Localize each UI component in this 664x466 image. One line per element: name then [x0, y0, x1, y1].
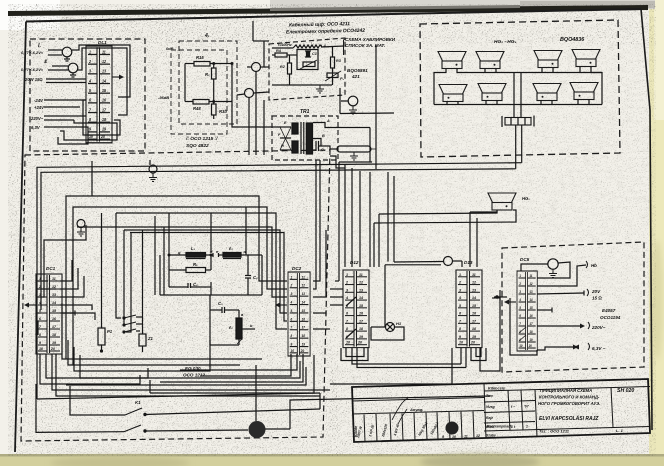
potentiometer P1	[98, 328, 105, 345]
dark page top edge band	[8, 5, 648, 16]
connector D13 body	[456, 270, 482, 348]
speaker HG6	[439, 85, 467, 102]
feeder verticals	[513, 73, 515, 118]
svg-text:R₁: R₁	[193, 262, 198, 267]
svg-text:H1: H1	[396, 321, 402, 326]
lamp wires	[371, 326, 386, 328]
right rows	[484, 401, 535, 403]
bus wires row 2	[434, 104, 602, 106]
tick DC1 pin5	[62, 312, 75, 314]
connector DC1 body	[36, 274, 62, 354]
switch K1 upper	[70, 386, 125, 415]
svg-text:Rachlampinach: Rachlampinach	[487, 424, 512, 428]
svg-text:Tsz. : OCO 1211: Tsz. : OCO 1211	[539, 429, 570, 434]
svg-text:4₁: 4₁	[204, 33, 210, 39]
svg-text:1: 1	[526, 425, 528, 429]
secondary winding	[306, 123, 312, 154]
frame right line	[641, 9, 652, 430]
row sub columns	[508, 390, 510, 430]
LC wires	[169, 254, 186, 256]
svg-text:КОНТРОЛЬНОГО И КОМАНД-: КОНТРОЛЬНОГО И КОМАНД-	[539, 395, 600, 400]
svg-text:HG₂ - HG₉: HG₂ - HG₉	[494, 39, 516, 45]
wires between blocks	[263, 41, 265, 67]
svg-text:R15: R15	[196, 55, 204, 60]
switch marks pins 8 9	[519, 327, 526, 333]
switch K1 lower	[36, 384, 124, 432]
svg-text:C₂: C₂	[253, 275, 258, 280]
wires left of D12	[335, 280, 339, 282]
speaker HG8	[533, 84, 561, 101]
dashed box: loudspeaker group	[420, 20, 620, 157]
svg-text:BQO5891: BQO5891	[347, 68, 368, 73]
ground in filter	[316, 85, 324, 93]
microphone jack 2	[68, 63, 78, 73]
title block outline	[352, 379, 650, 442]
row labels	[486, 394, 530, 438]
svg-text:Kiblde: Kiblde	[354, 426, 358, 437]
svg-text:R₂: R₂	[205, 72, 210, 77]
wire box below D12	[341, 348, 368, 361]
svg-text:C₃: C₃	[218, 301, 223, 306]
attenuator wires	[185, 63, 194, 65]
dashed box: attenuator outer	[171, 50, 227, 134]
box around C1 P4	[297, 50, 318, 70]
scan background: yellow strip right	[649, 0, 664, 466]
capacitor C1	[305, 50, 311, 52]
speaker HG9	[570, 83, 598, 100]
wire box below D13	[460, 348, 462, 364]
wire D13 to DC5	[496, 296, 498, 298]
svg-text:K1: K1	[135, 400, 141, 405]
caption text above frame: cable code	[286, 20, 365, 35]
handwriting squiggle	[392, 398, 408, 420]
jack circle 2	[245, 89, 254, 98]
svg-text:P1: P1	[107, 329, 113, 334]
feed wires right of DC2	[313, 160, 320, 281]
speaker HG4	[534, 51, 562, 68]
svg-text:DC2: DC2	[292, 266, 302, 271]
wire 220V	[537, 325, 580, 327]
svg-text:11: 11	[464, 435, 468, 439]
svg-text:Terv: Terv	[486, 394, 494, 398]
svg-text:f ~: f ~	[511, 405, 515, 409]
gray speckle above top band	[270, 0, 655, 9]
dashed box: transformer TR1	[272, 116, 338, 160]
wire loop right of DL1	[72, 45, 130, 97]
HG1 wires	[379, 210, 497, 214]
svg-text:I.: I.	[38, 43, 42, 49]
connector D12 body	[343, 270, 369, 348]
svg-text:BQO4836: BQO4836	[560, 37, 585, 43]
frame top line	[26, 9, 641, 22]
wire 63V	[537, 347, 578, 350]
rotated column texts	[356, 421, 440, 439]
wire box below DC1	[40, 354, 140, 384]
svg-text:E4057: E4057	[602, 308, 616, 313]
svg-text:OCO 1212: OCO 1212	[183, 373, 205, 378]
wires DC5 pin1 pin2 to monitor	[537, 262, 570, 278]
dashed box: attenuator 4	[179, 41, 237, 124]
svg-text:C1: C1	[312, 52, 317, 56]
arrow pin4 DL1	[112, 76, 119, 78]
wires into D12 top	[338, 162, 340, 281]
resistor R4	[275, 53, 287, 57]
tick DC2 pin5	[313, 312, 326, 314]
dashed box: main amplifier section	[21, 150, 330, 441]
dashed box: input panel I	[30, 39, 145, 151]
bus wires row 1	[434, 69, 446, 105]
slash marks D12 pins	[346, 297, 356, 306]
svg-text:D12: D12	[350, 260, 359, 265]
wire box below DC2	[200, 354, 291, 376]
speaker HG7	[478, 84, 506, 101]
potentiometer P2	[327, 73, 338, 78]
svg-text:421: 421	[351, 74, 360, 79]
scan background: yellow band bottom	[0, 455, 664, 466]
svg-text:ℓ₃: ℓ₃	[229, 246, 233, 251]
arrow D13 pin4 right	[492, 297, 500, 299]
inductor L4	[293, 45, 322, 48]
capacitor C4	[187, 283, 189, 288]
speaker HG1	[488, 193, 516, 210]
trimmer Z1	[139, 334, 146, 346]
connector DL1	[86, 46, 112, 143]
svg-text:A: A	[326, 119, 330, 123]
svg-text:0dB: 0dB	[166, 46, 174, 51]
jack circle DC5	[548, 259, 558, 269]
potentiometer P4	[303, 62, 315, 67]
project title cyrillic	[538, 388, 600, 406]
primary cross wires	[280, 126, 291, 128]
Kiblochi header row	[484, 387, 650, 392]
svg-text:СПИСОК ЗА. МАТ.: СПИСОК ЗА. МАТ.	[345, 43, 385, 48]
primary winding upper	[292, 123, 298, 134]
svg-text:6,3V ~: 6,3V ~	[592, 346, 606, 351]
arrow DC2 pin4	[280, 304, 287, 306]
capacitor C2	[245, 275, 251, 277]
svg-text:OCO1194: OCO1194	[600, 315, 621, 320]
svg-text:Kiblocsis: Kiblocsis	[488, 387, 505, 391]
svg-text:SH 020: SH 020	[617, 388, 634, 394]
arrow DC1 pin4	[29, 304, 36, 306]
svg-text:НОГО ГРОМКОГОВОРИТ АУЭ.: НОГО ГРОМКОГОВОРИТ АУЭ.	[538, 401, 600, 406]
svg-text:R3b: R3b	[219, 109, 227, 114]
left rows	[352, 398, 484, 402]
svg-text:СХЕМА ХАБЛИРОВКИ: СХЕМА ХАБЛИРОВКИ	[345, 37, 396, 42]
connector DC5 body	[517, 271, 537, 351]
svg-text:R48: R48	[193, 106, 201, 111]
microphone jack 1	[62, 47, 72, 57]
caption bracket: wiring diagram note	[344, 37, 396, 79]
wire below DC5	[510, 298, 537, 355]
svg-text:0,77V-6,2V≈: 0,77V-6,2V≈	[21, 50, 44, 55]
drawing number cell	[611, 387, 613, 427]
svg-text:Szabv: Szabv	[486, 434, 497, 438]
jack circle 1	[252, 63, 261, 72]
wire 20V	[537, 293, 584, 294]
frame left line	[15, 22, 26, 453]
speaker HG3	[476, 52, 504, 69]
primary winding lower	[292, 141, 298, 153]
svg-text:DC1: DC1	[46, 266, 56, 271]
ground jack mid	[77, 220, 85, 228]
capacitor C3	[221, 307, 223, 313]
svg-text:L. 1: L. 1	[616, 428, 624, 433]
svg-text:20V: 20V	[591, 289, 601, 294]
vertical main divider	[484, 384, 486, 439]
svg-text:TR1: TR1	[300, 109, 310, 115]
svg-text:ПРИЦИПИАЛНАЯ СХЕМА: ПРИЦИПИАЛНАЯ СХЕМА	[540, 388, 592, 393]
svg-text:L₁: L₁	[191, 246, 196, 251]
svg-text:220V~: 220V~	[30, 116, 44, 121]
svg-text:Ⅱ.: Ⅱ.	[44, 59, 48, 64]
ground under capsule	[350, 152, 358, 160]
speaker HG2	[438, 52, 466, 69]
svg-text:Rajz: Rajz	[486, 416, 493, 420]
dashed box: output connector DC5	[502, 242, 644, 372]
svg-text:f=100Hz: f=100Hz	[278, 43, 292, 47]
jack circle 3	[348, 96, 358, 106]
wire maze top horizontals	[37, 163, 522, 399]
svg-text:+24V: +24V	[34, 105, 45, 110]
svg-text:12: 12	[476, 434, 480, 438]
svg-text:220V~: 220V~	[591, 325, 606, 330]
wire maze mid horizontals	[62, 303, 262, 359]
svg-text:-24V: -24V	[34, 98, 44, 103]
svg-text:P₂: P₂	[340, 77, 345, 81]
tick DC5 pin5	[537, 309, 552, 311]
svg-text:D13: D13	[464, 260, 473, 265]
dashed box: filter network	[269, 38, 345, 100]
svg-text:ℓ₂: ℓ₂	[229, 325, 233, 330]
svg-text:9: 9	[442, 435, 444, 439]
svg-text:0,77V-6,2V≈: 0,77V-6,2V≈	[21, 67, 44, 72]
fuse capsule	[337, 146, 371, 152]
bracket output 96	[586, 261, 588, 268]
core laminations	[300, 122, 302, 154]
junction blob	[249, 421, 266, 438]
relay contacts	[124, 315, 136, 318]
ground jack top	[149, 165, 157, 173]
svg-text:HG₁: HG₁	[522, 196, 530, 201]
svg-text:C₄: C₄	[193, 282, 198, 287]
secondary wires A B C	[313, 123, 370, 128]
svg-text:Cₐ: Cₐ	[321, 148, 326, 152]
svg-text:SQO 4822: SQO 4822	[186, 143, 209, 149]
svg-text:g: g	[177, 250, 181, 255]
svg-text:DC5: DC5	[520, 257, 530, 262]
column numbers	[442, 434, 480, 439]
svg-text:15 Ω: 15 Ω	[592, 296, 602, 301]
resistor R3f	[331, 57, 335, 68]
svg-text:-36dB: -36dB	[158, 95, 169, 100]
svg-text:H: H	[281, 144, 284, 148]
left connector feed wires	[36, 280, 48, 282]
svg-text:10: 10	[452, 435, 456, 439]
input wires left	[48, 49, 62, 51]
svg-text:6,3V: 6,3V	[31, 125, 41, 130]
connector DC2 body	[288, 272, 310, 356]
speaker HG5	[572, 50, 600, 67]
left column dividers	[364, 415, 365, 442]
svg-text:DL1: DL1	[98, 40, 107, 45]
svg-text:Z1: Z1	[147, 336, 154, 341]
arrow DC5 pin4 left	[509, 301, 516, 303]
inked dot in title row	[446, 422, 459, 435]
svg-text:B: B	[322, 134, 325, 138]
lower left wires	[37, 393, 320, 399]
svg-text:Vizsg: Vizsg	[486, 405, 496, 409]
svg-text:Hb: Hb	[591, 263, 597, 268]
terminal strip	[505, 118, 531, 126]
filter wires	[272, 47, 293, 49]
svg-text:/: OCO 1215 :/: /: OCO 1215 :/	[185, 136, 218, 142]
resistor R2f	[288, 63, 292, 74]
svg-text:20W 15Ω: 20W 15Ω	[24, 77, 43, 82]
capacitor Co	[315, 141, 317, 151]
wires into D13 top	[461, 261, 463, 267]
svg-text:Anyag.: Anyag.	[409, 407, 423, 412]
svg-text:ELVI KAPCSOLÁSI RAJZ: ELVI KAPCSOLÁSI RAJZ	[539, 415, 599, 422]
